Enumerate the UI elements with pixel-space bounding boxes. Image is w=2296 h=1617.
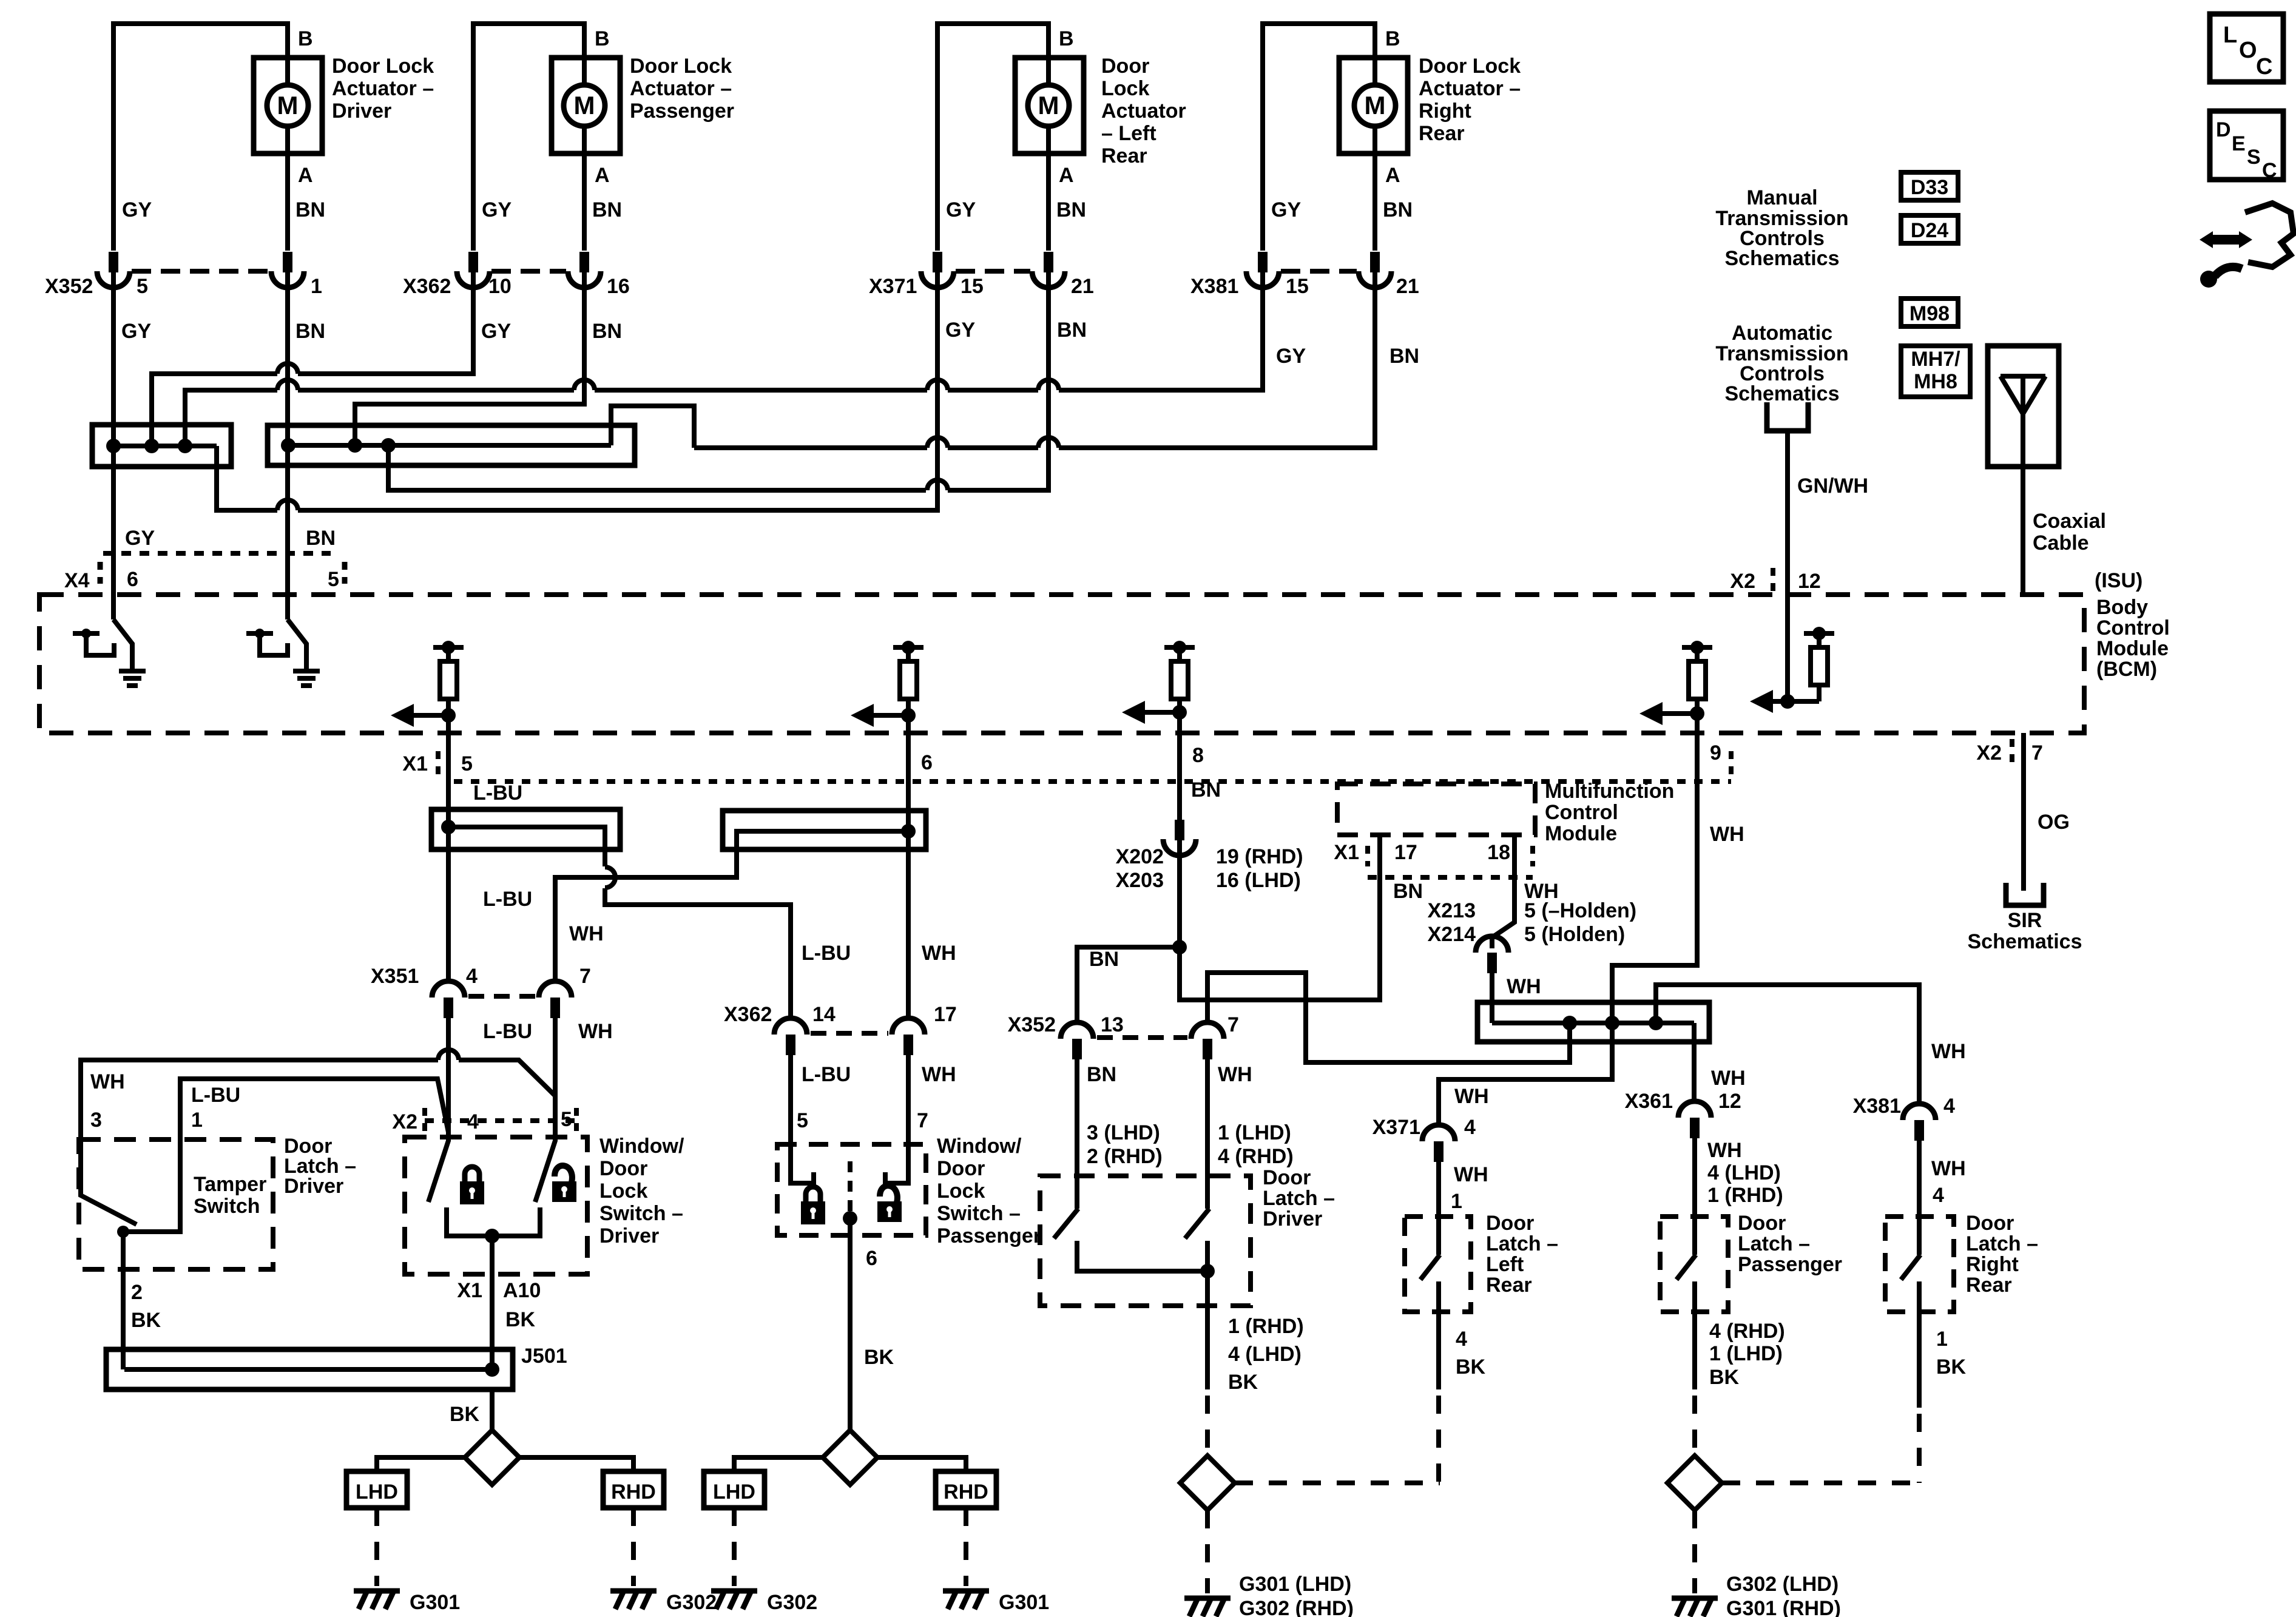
- junction rect C (WH bus): [1477, 1002, 1709, 1042]
- svg-text:15: 15: [961, 275, 984, 298]
- svg-text:WH: WH: [1507, 975, 1541, 998]
- svg-text:Actuator –: Actuator –: [630, 77, 732, 100]
- svg-text:L-BU: L-BU: [483, 888, 532, 911]
- svg-text:Door: Door: [1101, 55, 1149, 78]
- svg-text:WH: WH: [1454, 1085, 1489, 1108]
- svg-text:Rear: Rear: [1486, 1274, 1532, 1297]
- svg-text:7: 7: [2031, 741, 2043, 765]
- wire GN/WH from X2-12: [1785, 595, 1790, 701]
- wire BK passenger latch: [1692, 1281, 1697, 1389]
- svg-text:Control: Control: [1545, 801, 1618, 824]
- svg-text:Rear: Rear: [1101, 144, 1147, 167]
- junction rect A (L-BU distribution): [431, 809, 620, 849]
- dashed BK RR latch: [1917, 1414, 1922, 1483]
- svg-text:6: 6: [127, 568, 138, 591]
- svg-text:Door Lock: Door Lock: [630, 55, 732, 78]
- svg-text:1 (LHD): 1 (LHD): [1218, 1121, 1291, 1144]
- connector X362: [774, 1018, 807, 1035]
- passenger switch common: [848, 1161, 853, 1211]
- wire WH MFM pin18: [1492, 835, 1514, 948]
- svg-text:4 (LHD): 4 (LHD): [1228, 1343, 1302, 1366]
- svg-text:12: 12: [1718, 1090, 1741, 1113]
- svg-text:Door: Door: [1263, 1166, 1311, 1189]
- junction dot BN left-rear: [381, 438, 396, 453]
- svg-text:4 (RHD): 4 (RHD): [1218, 1145, 1294, 1168]
- svg-text:Lock: Lock: [1101, 77, 1149, 100]
- wire: right-rear GY link (y=643): [185, 390, 277, 446]
- svg-text:1 (RHD): 1 (RHD): [1228, 1315, 1304, 1338]
- svg-text:B: B: [595, 27, 610, 50]
- svg-text:5 (Holden): 5 (Holden): [1524, 923, 1625, 946]
- wire into LR latch: [1436, 1161, 1441, 1255]
- svg-text:X202: X202: [1116, 845, 1164, 868]
- svg-text:O: O: [2239, 38, 2257, 63]
- svg-text:WH: WH: [922, 942, 956, 965]
- wire OG: [2021, 733, 2026, 891]
- svg-text:BK: BK: [864, 1346, 894, 1369]
- wire WH through rect B: [906, 811, 911, 849]
- wires X362 pins to passenger switch: [788, 1054, 793, 1144]
- wire B top loop Left Rear: [937, 24, 1048, 251]
- wire: passenger BN link (y=666): [355, 272, 584, 445]
- connector X213/X214: [1476, 936, 1508, 953]
- svg-text:2 (RHD): 2 (RHD): [1087, 1145, 1163, 1168]
- connector X351: [432, 981, 465, 998]
- WH to X371-4: [1439, 1023, 1612, 1125]
- svg-text:7: 7: [1227, 1013, 1239, 1036]
- svg-text:3 (LHD): 3 (LHD): [1087, 1121, 1160, 1144]
- svg-text:GY: GY: [121, 320, 151, 343]
- svg-text:BN: BN: [592, 198, 622, 221]
- svg-text:17: 17: [934, 1003, 957, 1026]
- svg-text:5: 5: [797, 1109, 808, 1132]
- hop over left-rear GY: [927, 480, 948, 490]
- svg-text:Door: Door: [1966, 1212, 2014, 1235]
- svg-text:L-BU: L-BU: [802, 1063, 851, 1086]
- svg-text:E: E: [2232, 132, 2246, 155]
- hop over driver BN: [277, 500, 298, 510]
- svg-text:Multifunction: Multifunction: [1545, 780, 1674, 803]
- GN/WH arrow junction: [1750, 690, 1795, 713]
- wire WH X351-7 to switch: [553, 1017, 558, 1134]
- junction dot WH: [901, 824, 916, 839]
- dashed wire to G301: [374, 1508, 379, 1586]
- svg-text:L-BU: L-BU: [473, 781, 522, 805]
- svg-text:X214: X214: [1428, 923, 1476, 946]
- svg-text:BN: BN: [592, 320, 622, 343]
- MFM X1 connector: [1365, 846, 1370, 866]
- dashed to right rear latch: [1722, 1480, 1917, 1485]
- svg-text:WH: WH: [1931, 1040, 1966, 1063]
- hop over passenger BN: [574, 380, 595, 390]
- L-BU branch to passenger: [448, 827, 605, 866]
- svg-text:B: B: [298, 27, 313, 50]
- svg-text:G301 (RHD): G301 (RHD): [1726, 1597, 1841, 1617]
- BCM arrow at x=1497: [851, 704, 916, 727]
- svg-text:BN: BN: [295, 198, 325, 221]
- svg-text:LHD: LHD: [713, 1480, 755, 1504]
- svg-text:WH: WH: [1711, 1067, 1746, 1090]
- junction dot GY stub B: [178, 439, 192, 453]
- X2 pin 12 labels: [1771, 568, 1775, 593]
- svg-text:6: 6: [921, 751, 933, 774]
- svg-text:X2: X2: [1730, 570, 1755, 593]
- wire BK below J501: [490, 1389, 495, 1430]
- svg-text:G302: G302: [767, 1591, 817, 1614]
- WH to X381-4: [1656, 985, 1919, 1104]
- connector X202/X203: [1175, 820, 1184, 840]
- dashed BK LR latch: [1436, 1396, 1441, 1483]
- svg-text:BN: BN: [1057, 319, 1087, 342]
- junction rect B (WH distribution): [723, 811, 926, 849]
- svg-text:A: A: [298, 164, 313, 187]
- connector X371 pin 4: [1422, 1125, 1455, 1141]
- svg-text:Window/: Window/: [937, 1135, 1022, 1158]
- wires to LHD/RHD: [377, 1457, 465, 1471]
- svg-text:M: M: [1038, 91, 1059, 120]
- svg-text:BN: BN: [306, 527, 336, 550]
- switch blade BN: [288, 619, 306, 669]
- svg-text:Right: Right: [1966, 1253, 2019, 1276]
- svg-text:X2: X2: [1976, 741, 2002, 765]
- Door Latch - Right Rear box: [1885, 1217, 1954, 1312]
- svg-text:WH: WH: [922, 1063, 956, 1086]
- WH branch left: [555, 831, 908, 981]
- svg-text:MH7/: MH7/: [1911, 348, 1960, 371]
- switch blade GY: [113, 619, 132, 669]
- X1 connector row (BCM outputs): [436, 751, 441, 777]
- svg-text:GY: GY: [1271, 198, 1301, 221]
- svg-text:OG: OG: [2038, 811, 2070, 834]
- wire BN pin8: [1177, 712, 1182, 820]
- dashed BK to diamond: [1205, 1396, 1210, 1456]
- svg-text:1: 1: [311, 275, 322, 298]
- ground G302/G301: [1672, 1598, 1718, 1616]
- splice diamond latch driver: [1180, 1456, 1235, 1510]
- Body Control Module (BCM) box: [39, 595, 2084, 733]
- wire BK RR latch: [1917, 1281, 1922, 1408]
- wire BK passenger: [848, 1218, 853, 1430]
- svg-text:X351: X351: [371, 965, 419, 988]
- X2 pin 7 output: [2010, 739, 2014, 765]
- svg-text:GY: GY: [946, 198, 976, 221]
- wire WH pin9: [1612, 714, 1697, 1023]
- svg-text:X371: X371: [869, 275, 917, 298]
- DESC reference box: [2210, 111, 2283, 180]
- svg-text:1: 1: [191, 1109, 203, 1132]
- wire B top loop Driver: [113, 24, 288, 251]
- svg-text:G301 (LHD): G301 (LHD): [1239, 1573, 1351, 1596]
- svg-text:BN: BN: [1056, 198, 1086, 221]
- BN bus inner line: [288, 443, 611, 448]
- reference box D33: [1901, 172, 1958, 200]
- svg-text:3: 3: [90, 1109, 102, 1132]
- svg-text:18: 18: [1487, 841, 1510, 864]
- svg-text:Passenger: Passenger: [1738, 1253, 1842, 1276]
- wire L-BU X351-4 to switch: [446, 1017, 451, 1134]
- svg-text:GY: GY: [125, 527, 155, 550]
- GY bus inner line: [113, 444, 217, 448]
- svg-text:L: L: [2223, 22, 2237, 48]
- svg-text:GY: GY: [482, 198, 512, 221]
- svg-text:BN: BN: [1089, 948, 1119, 971]
- svg-text:WH: WH: [1931, 1157, 1966, 1180]
- tamper L-BU contact path: [123, 1079, 448, 1232]
- svg-text:1 (RHD): 1 (RHD): [1707, 1184, 1783, 1207]
- svg-text:M98: M98: [1909, 302, 1950, 325]
- wire: driver GY down to X4-6: [111, 272, 116, 619]
- right junction rectangle (BN bus): [268, 425, 635, 465]
- ground G301/G302: [1184, 1598, 1231, 1616]
- ground G302 passenger: [711, 1591, 757, 1609]
- svg-text:RHD: RHD: [611, 1480, 656, 1504]
- splice J501: [106, 1349, 513, 1389]
- BN branch to X352-13: [1077, 947, 1180, 1022]
- svg-text:Passenger: Passenger: [937, 1224, 1041, 1247]
- latch driver blade BN: [1054, 1209, 1078, 1238]
- svg-text:4: 4: [1933, 1184, 1944, 1207]
- svg-text:X352: X352: [45, 275, 93, 298]
- svg-text:5 (–Holden): 5 (–Holden): [1524, 899, 1636, 922]
- svg-text:Driver: Driver: [332, 100, 391, 123]
- svg-text:Schematics: Schematics: [1725, 382, 1840, 405]
- BN bus detour over rect edge: [611, 406, 694, 448]
- Multifunction Control Module box: [1337, 784, 1535, 835]
- svg-text:C: C: [2262, 159, 2277, 182]
- hop over left-rear GY: [927, 380, 948, 390]
- svg-text:19 (RHD): 19 (RHD): [1216, 845, 1303, 868]
- wire: passenger GY link (line A y=616): [152, 374, 277, 446]
- GN/WH input resistor: [1804, 627, 1834, 701]
- svg-text:GN/WH: GN/WH: [1797, 474, 1868, 498]
- dashed wire to G302: [631, 1508, 636, 1586]
- svg-text:Schematics: Schematics: [1968, 930, 2082, 953]
- junction dot WH right-rear: [1649, 1016, 1663, 1030]
- ground (BCM internal) 1: [119, 671, 146, 686]
- svg-text:Body: Body: [2096, 596, 2148, 619]
- svg-text:GY: GY: [945, 319, 975, 342]
- driver switch blade lock: [428, 1134, 448, 1202]
- svg-text:M: M: [1365, 91, 1386, 120]
- connector X352 pins 5/1: [109, 252, 118, 272]
- BCM arrow at x=739: [391, 704, 456, 727]
- switch bracket: [86, 633, 114, 655]
- svg-text:X371: X371: [1373, 1116, 1420, 1139]
- latch driver wires into box: [1075, 1058, 1079, 1209]
- connector X352 (door latch driver): [1061, 1022, 1093, 1039]
- svg-text:SIR: SIR: [2008, 909, 2042, 932]
- connector X381 pin 4: [1903, 1104, 1936, 1120]
- splice diamond driver: [465, 1430, 519, 1485]
- hop over driver BN: [277, 363, 298, 374]
- reference box MH7/MH8: [1901, 346, 1970, 397]
- svg-text:A: A: [1385, 164, 1400, 187]
- ground G301 passenger: [943, 1591, 989, 1609]
- svg-text:14: 14: [812, 1003, 836, 1026]
- hop over L-BU wire: [438, 1050, 459, 1060]
- svg-text:7: 7: [917, 1109, 928, 1132]
- Door Latch - Left Rear box: [1405, 1217, 1471, 1312]
- Door Latch - Driver box: [1040, 1176, 1251, 1306]
- svg-text:A: A: [1059, 164, 1074, 187]
- svg-text:5: 5: [561, 1108, 572, 1131]
- svg-text:Actuator –: Actuator –: [332, 77, 434, 100]
- svg-text:G301: G301: [410, 1591, 460, 1614]
- wire L-BU to X351-4: [446, 849, 451, 981]
- svg-text:4: 4: [1464, 1116, 1476, 1139]
- svg-text:GY: GY: [122, 198, 152, 221]
- SIR schematics bracket: [2006, 883, 2044, 905]
- svg-text:Driver: Driver: [284, 1175, 343, 1198]
- svg-text:10: 10: [488, 275, 512, 298]
- junction dot A10: [485, 1229, 499, 1243]
- connector X4: [98, 562, 103, 584]
- Window/Door Lock Switch - Passenger box: [777, 1144, 926, 1235]
- svg-text:A10: A10: [503, 1279, 541, 1302]
- wire into RR latch: [1917, 1139, 1922, 1255]
- svg-text:12: 12: [1798, 570, 1821, 593]
- svg-text:BK: BK: [450, 1403, 480, 1426]
- svg-text:Tamper: Tamper: [194, 1173, 266, 1196]
- svg-text:X381: X381: [1853, 1095, 1901, 1118]
- svg-text:X1: X1: [1334, 841, 1359, 864]
- svg-text:Window/: Window/: [599, 1135, 684, 1158]
- svg-text:Driver: Driver: [1263, 1207, 1322, 1230]
- svg-text:21: 21: [1396, 275, 1419, 298]
- svg-text:WH: WH: [1707, 1139, 1742, 1162]
- BCM pull-up resistor at x=739: [433, 641, 464, 715]
- tamper BK wire: [121, 1232, 126, 1369]
- svg-text:Door: Door: [937, 1157, 985, 1180]
- wire A Left Rear: [1046, 126, 1051, 251]
- svg-text:BK: BK: [1228, 1371, 1258, 1394]
- svg-text:WH: WH: [1454, 1163, 1488, 1186]
- svg-text:4 (RHD): 4 (RHD): [1709, 1320, 1785, 1343]
- svg-text:4: 4: [467, 1110, 479, 1133]
- icon closed padlock passenger: [801, 1187, 825, 1224]
- antenna (keyless entry receiver): [1988, 346, 2059, 467]
- wire GN/WH above BCM: [1785, 431, 1790, 595]
- svg-text:Switch –: Switch –: [937, 1202, 1021, 1225]
- svg-text:21: 21: [1071, 275, 1094, 298]
- svg-text:Switch –: Switch –: [599, 1202, 683, 1225]
- svg-text:G301: G301: [999, 1591, 1049, 1614]
- svg-text:X1: X1: [402, 752, 428, 775]
- svg-text:Module: Module: [2096, 637, 2169, 660]
- svg-text:15: 15: [1286, 275, 1309, 298]
- junction dot BN driver: [281, 438, 295, 453]
- option box LHD: [346, 1471, 407, 1508]
- svg-text:X213: X213: [1428, 899, 1476, 922]
- BCM arrow at x=2797: [1639, 702, 1704, 725]
- BCM pull-up resistor at x=2797: [1682, 641, 1712, 715]
- junction dot WH BCM-9: [1605, 1016, 1619, 1030]
- WH to door latch driver pin 7: [1207, 973, 1570, 1062]
- svg-text:1 (LHD): 1 (LHD): [1709, 1342, 1783, 1365]
- reference box M98: [1901, 299, 1958, 326]
- svg-text:D24: D24: [1911, 219, 1948, 242]
- svg-text:2: 2: [131, 1281, 143, 1304]
- junction dot BN: [1172, 940, 1187, 954]
- wire: left-rear BN link (y=808): [388, 445, 926, 490]
- svg-text:BN: BN: [295, 320, 325, 343]
- splice diamond passenger latch: [1667, 1456, 1722, 1510]
- svg-text:BN: BN: [1383, 198, 1413, 221]
- connector X361 pin 12: [1678, 1101, 1711, 1118]
- svg-text:BN: BN: [1389, 345, 1419, 368]
- svg-text:Right: Right: [1419, 100, 1471, 123]
- wire WH to X362-17: [906, 849, 911, 1018]
- wire: right-rear BN link (y=738): [694, 445, 927, 450]
- svg-text:C: C: [2256, 54, 2272, 79]
- svg-text:LHD: LHD: [356, 1480, 398, 1504]
- svg-text:BN: BN: [1191, 778, 1221, 802]
- wire B top loop Right Rear: [1263, 24, 1375, 251]
- svg-text:X362: X362: [403, 275, 451, 298]
- X2 connector labels (driver switch): [422, 1108, 427, 1133]
- svg-text:X362: X362: [724, 1003, 772, 1026]
- svg-text:Latch –: Latch –: [1263, 1187, 1335, 1210]
- svg-text:L-BU: L-BU: [483, 1020, 532, 1043]
- hand/wrench icon: [2200, 203, 2294, 288]
- svg-text:Actuator: Actuator: [1101, 100, 1186, 123]
- svg-text:Lock: Lock: [599, 1180, 647, 1203]
- wire A Right Rear: [1373, 126, 1377, 251]
- junction dot L-BU: [441, 820, 456, 834]
- svg-text:8: 8: [1192, 744, 1204, 767]
- svg-text:5: 5: [461, 752, 473, 775]
- WH bus inner line: [1492, 1021, 1694, 1025]
- svg-text:X1: X1: [457, 1279, 482, 1302]
- svg-text:Automatic: Automatic: [1732, 322, 1832, 345]
- splice diamond passenger: [823, 1430, 877, 1485]
- svg-text:Cable: Cable: [2033, 532, 2089, 555]
- svg-text:17: 17: [1394, 841, 1417, 864]
- junction dot GY driver: [106, 439, 121, 453]
- icon open padlock passenger: [877, 1186, 902, 1222]
- dashed to left rear latch: [1235, 1480, 1440, 1485]
- svg-text:Rear: Rear: [1419, 122, 1465, 145]
- latch driver output: [1077, 1241, 1207, 1271]
- svg-text:Manual: Manual: [1746, 186, 1817, 209]
- option box LHD 2: [704, 1471, 765, 1508]
- svg-text:6: 6: [866, 1247, 877, 1270]
- wire BN below X202: [1180, 835, 1380, 1000]
- svg-text:L-BU: L-BU: [191, 1084, 240, 1107]
- svg-text:BK: BK: [1456, 1355, 1486, 1379]
- wire A Driver: [285, 126, 290, 251]
- door lock actuator - Driver: [254, 58, 322, 154]
- svg-text:B: B: [1059, 27, 1074, 50]
- BCM arrow at x=1944: [1122, 701, 1187, 724]
- svg-text:MH8: MH8: [1914, 370, 1957, 393]
- svg-text:BN: BN: [1087, 1063, 1116, 1086]
- svg-text:7: 7: [579, 965, 591, 988]
- svg-text:S: S: [2247, 146, 2261, 169]
- passenger latch blade: [1676, 1255, 1696, 1280]
- svg-text:Coaxial: Coaxial: [2033, 510, 2106, 533]
- svg-text:Door Lock: Door Lock: [1419, 55, 1521, 78]
- svg-text:X352: X352: [1008, 1013, 1056, 1036]
- connector X371 pins 15/21: [933, 252, 942, 272]
- door lock actuator - Passenger: [552, 58, 620, 154]
- svg-text:G302: G302: [666, 1591, 717, 1614]
- svg-text:L-BU: L-BU: [802, 942, 851, 965]
- svg-text:B: B: [1385, 27, 1400, 50]
- svg-text:J501: J501: [521, 1345, 567, 1368]
- Door Latch - Passenger box: [1660, 1217, 1728, 1312]
- tamper switch blade: [81, 1139, 137, 1224]
